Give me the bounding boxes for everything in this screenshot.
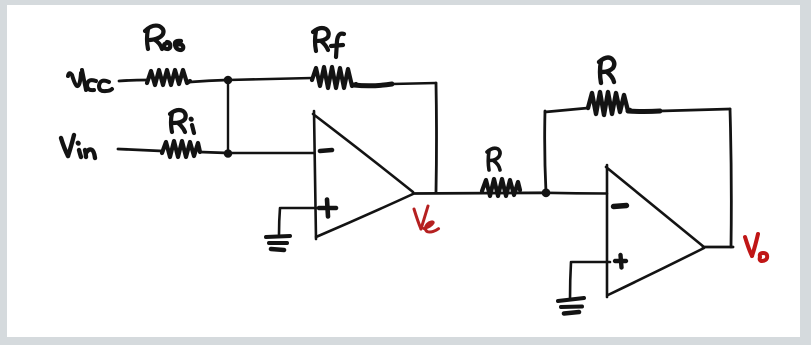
- resistor Ri: [162, 141, 200, 157]
- label R2: [487, 148, 500, 170]
- label Vo: [745, 234, 767, 261]
- ground 1: [266, 236, 290, 250]
- wire Vin lead: [118, 149, 162, 151]
- node C: [542, 188, 551, 197]
- wire corner down to output: [435, 83, 438, 192]
- wire U2 plus to ground: [570, 262, 610, 299]
- wire Ri to node B: [200, 152, 228, 153]
- op-amp U1 minus input: [320, 150, 332, 151]
- wire feedback right vertical: [730, 109, 731, 247]
- wire feedback top left: [545, 108, 588, 112]
- resistor R2 (between stages): [482, 179, 520, 196]
- wire Ros to node A: [190, 80, 227, 82]
- label Vcc: [68, 70, 112, 91]
- resistor Rf: [312, 67, 392, 88]
- op-amp U2: [606, 165, 704, 297]
- node A: [224, 76, 233, 85]
- op-amp U2 plus input: [615, 255, 626, 268]
- wire node A to Rf: [228, 78, 312, 80]
- wire U2 output: [703, 246, 733, 249]
- label Vin: [61, 135, 95, 158]
- wire node B to op-amp U1: [228, 152, 314, 155]
- wire Vcc lead: [119, 80, 147, 81]
- label Ri: [170, 110, 194, 133]
- node B: [224, 149, 233, 158]
- wire U1 plus to ground: [279, 208, 316, 234]
- label Rf: [313, 28, 344, 57]
- op-amp U1 plus input: [319, 200, 336, 217]
- label Ve: [414, 206, 439, 232]
- wire feedback top right: [660, 109, 730, 111]
- wire node C to op-amp U2: [546, 192, 607, 195]
- resistor R3 (feedback): [588, 92, 660, 115]
- resistor Ros: [147, 70, 190, 85]
- op-amp U1: [313, 111, 413, 239]
- wire node C up: [545, 111, 546, 193]
- op-amp U2 minus input: [614, 206, 627, 207]
- ground 2: [558, 298, 584, 314]
- label R3: [599, 58, 614, 83]
- wire U1 output: [413, 191, 546, 194]
- label Ros: [145, 26, 183, 50]
- wire Rf to corner: [392, 83, 436, 84]
- wire node A to node B vertical: [227, 80, 229, 153]
